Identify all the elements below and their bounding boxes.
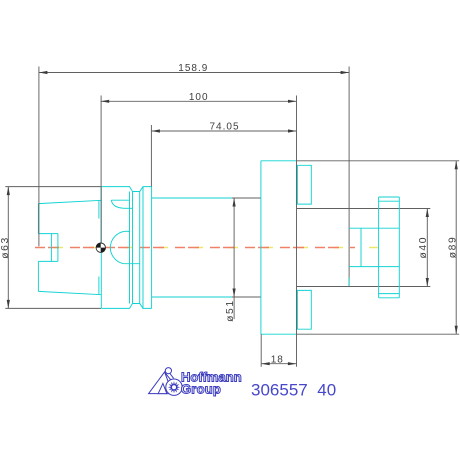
arrow 158.9 left: [39, 71, 48, 74]
gripper recess upper line2: [124, 207, 133, 209]
dim line 158.9: [39, 72, 349, 74]
ext line 100 left: [100, 96, 102, 244]
svg-text:306557: 306557: [251, 380, 308, 399]
centerline red: [35, 247, 355, 249]
dim line 100: [101, 100, 297, 102]
arrow 18 right: [288, 362, 297, 365]
accessory left vertical: [378, 197, 380, 298]
svg-text:100: 100: [189, 92, 209, 103]
big flange top edge: [261, 160, 297, 162]
arrow 74.05 left: [151, 129, 160, 132]
arrow d63 top: [7, 187, 10, 196]
body d51 top edge dark: [232, 197, 261, 199]
accessory cap lines: [379, 197, 400, 298]
dim line d89: [455, 161, 457, 334]
arrow d40 top: [426, 209, 429, 218]
svg-text:ø89: ø89: [447, 236, 458, 259]
dim line d51: [233, 198, 235, 319]
svg-text:ø51: ø51: [225, 299, 236, 322]
big flange left face: [260, 161, 262, 334]
arrow d63 bottom: [7, 300, 10, 309]
accessory shaft lines: [349, 228, 399, 266]
arrow d51 top: [233, 198, 236, 207]
body d51 bottom edge dark: [232, 296, 261, 298]
svg-text:158.9: 158.9: [178, 63, 208, 74]
ext line 18 left: [260, 334, 262, 367]
arrow 100 right: [288, 100, 297, 103]
arrow d40 bottom: [426, 278, 429, 287]
flange relief rect top: [297, 165, 311, 204]
dim line 18: [261, 363, 296, 365]
datum dot at gauge point: [96, 243, 106, 253]
ext line 74.05 left: [150, 125, 152, 187]
ext line 100-74.05 right: [296, 96, 298, 367]
blank cylinder d89 bottom edge + ext: [297, 333, 460, 335]
body d51 bottom edge cyan: [152, 296, 232, 298]
arrow 100 left: [101, 100, 110, 103]
flange relief rect bottom: [297, 290, 311, 329]
ext line 158.9 right: [348, 67, 350, 161]
accessory step vertical: [360, 228, 362, 266]
arrow d89 top: [455, 161, 458, 170]
gripper recess lower line: [124, 263, 140, 265]
taper left face: [37, 204, 39, 292]
logo gear: [168, 381, 180, 393]
hsk flange right face: [151, 187, 153, 309]
hsk flange top outline with v-groove: [101, 187, 151, 192]
ext line 158.9 left: [38, 67, 40, 247]
svg-text:Group: Group: [181, 381, 221, 396]
v-groove edge verticals: [130, 187, 144, 309]
svg-text:74.05: 74.05: [209, 122, 239, 133]
ext line d63 bottom: [5, 307, 101, 309]
gripper recess big arc: [110, 231, 129, 263]
centerline yellow: [35, 247, 403, 249]
hoffmann logo mark: [149, 368, 183, 396]
arrow d89 bottom: [455, 326, 458, 335]
svg-text:ø63: ø63: [0, 236, 11, 259]
taper top edge: [38, 200, 101, 203]
arrow 158.9 right: [341, 71, 350, 74]
taper bore lines: [38, 234, 58, 262]
taper end drive slots: [98, 201, 100, 295]
svg-text:18: 18: [271, 354, 284, 365]
blank right face cyan stub: [348, 278, 350, 287]
logo body arm: [165, 371, 174, 380]
svg-text:ø40: ø40: [418, 236, 429, 259]
blank d40 top edge + ext: [297, 208, 431, 210]
logo outer triangle: [149, 372, 173, 394]
dim line d63: [7, 187, 9, 309]
arrow d51 bottom: [233, 289, 236, 298]
gripper recess upper arc: [111, 200, 124, 208]
arrow 74.05 right: [288, 129, 297, 132]
logo wheel circle: [166, 379, 182, 395]
svg-text:40: 40: [317, 380, 336, 399]
hsk flange bottom outline with v-groove: [101, 304, 151, 309]
logo head circle: [165, 368, 171, 374]
blank right face: [348, 161, 350, 287]
logo inner triangle: [158, 383, 167, 393]
hsk flange left face: [100, 187, 102, 309]
dim line d40: [426, 209, 428, 287]
accessory right vertical: [398, 197, 400, 298]
blank d40 bottom edge + ext: [297, 286, 431, 288]
dim line 74.05: [151, 130, 296, 132]
taper bottom edge: [38, 291, 101, 294]
ext line d63 top: [5, 186, 101, 188]
gripper recess upper line: [111, 199, 129, 201]
body d51 top edge cyan: [152, 197, 232, 199]
blank cylinder d89 top edge + ext: [297, 160, 460, 162]
arrow 18 left: [261, 362, 270, 365]
big flange bottom edge: [261, 333, 297, 335]
